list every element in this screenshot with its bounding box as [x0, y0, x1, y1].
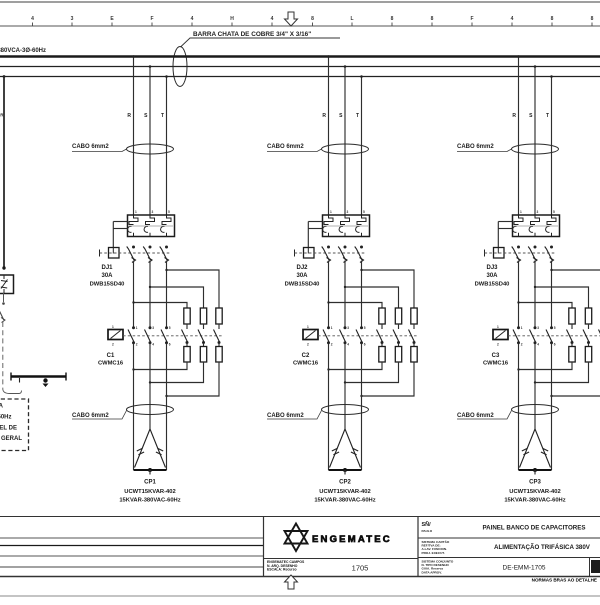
wire rejoin T [167, 362, 220, 396]
wire branch T to resistor [362, 270, 415, 308]
wire rejoin T [552, 362, 600, 396]
wire rejoin S [535, 362, 589, 383]
svg-text:PROJ. EXECUT.: PROJ. EXECUT. [422, 551, 445, 555]
contactor C1 coil [108, 330, 123, 340]
svg-text:1: 1 [331, 326, 333, 330]
svg-text:2: 2 [497, 343, 499, 347]
capacitor CP3 bottom bar [519, 469, 552, 471]
breaker contact [132, 246, 135, 249]
wire curve into panel box [3, 389, 22, 394]
sheet cell divider [589, 558, 591, 577]
bus T [0, 76, 600, 78]
node tap R3 [517, 55, 520, 58]
breaker DJ1 release box [109, 248, 120, 259]
breaker DJ1 trip block [128, 215, 175, 237]
svg-text:PAULO: PAULO [422, 529, 433, 533]
title block divider left section [264, 558, 419, 560]
svg-text:H: H [230, 16, 234, 22]
breaker contact [165, 246, 168, 249]
wire S3 mid [534, 261, 536, 328]
wire branch S to resistor [345, 287, 399, 308]
revision table line 1 [0, 537, 264, 539]
contactor aux contact [182, 330, 188, 343]
linkage tick [484, 250, 486, 257]
breaker contact [344, 246, 347, 249]
svg-text:3Ø-60Hz: 3Ø-60Hz [0, 415, 12, 421]
cable ellipse upper group 2 [322, 144, 369, 154]
svg-text:1: 1 [330, 210, 332, 214]
svg-text:R: R [322, 113, 326, 119]
svg-text:R: R [512, 113, 516, 119]
wire trip drop [497, 222, 499, 248]
cell tiny text row2 [422, 539, 450, 555]
capacitor CP2 bottom bar [329, 469, 362, 471]
contactor C3 coil [493, 330, 508, 340]
fuse F left feeder [0, 275, 14, 294]
cable ellipse lower group 1 [127, 405, 174, 415]
wire S2 mid [344, 261, 346, 328]
svg-text:CABO 6mm2: CABO 6mm2 [267, 144, 304, 150]
svg-text:5: 5 [168, 210, 170, 214]
svg-text:DWB15SD40: DWB15SD40 [285, 282, 320, 288]
svg-text:DWB15SD40: DWB15SD40 [90, 282, 125, 288]
wire phase T group 2 [361, 77, 363, 216]
capacitor CP3 delta [520, 429, 551, 468]
svg-text:4: 4 [191, 16, 194, 22]
revision table line 3 [0, 555, 264, 557]
resistor lower group 2 [395, 347, 401, 363]
svg-text:3: 3 [152, 326, 154, 330]
svg-text:F: F [470, 16, 473, 22]
linkage dashed C2 [318, 335, 418, 337]
wire trip stub lower [308, 228, 322, 230]
wire rejoin R [134, 362, 188, 370]
frame line above title block [0, 516, 600, 518]
svg-text:CP2: CP2 [339, 480, 351, 486]
capacitor CP1 bottom bar [134, 469, 167, 471]
wire rejoin S [150, 362, 204, 383]
svg-text:ESCALA: Recurso: ESCALA: Recurso [267, 568, 297, 572]
terminal bar [11, 375, 66, 378]
wire rejoin R [329, 362, 383, 370]
contactor main contact 3 [550, 326, 553, 329]
right section row divider 1 [418, 537, 600, 539]
title block left border [263, 517, 265, 577]
svg-text:3: 3 [71, 16, 74, 22]
svg-text:CABO 6mm2: CABO 6mm2 [457, 413, 494, 419]
cell tiny text row3 [422, 560, 454, 575]
wire R2 lower [328, 344, 330, 471]
contactor aux contact [214, 330, 220, 343]
resistor lower group 1 [184, 347, 190, 363]
svg-text:DATA APROV.: DATA APROV. [422, 570, 443, 574]
svg-text:2: 2 [307, 343, 309, 347]
svg-text:DE-EMM-1705: DE-EMM-1705 [503, 565, 546, 572]
wire phase S group 1 [149, 67, 151, 216]
resistor upper 2 group 1 [200, 308, 206, 324]
breaker pole element [162, 215, 171, 225]
svg-text:1: 1 [135, 210, 137, 214]
contactor C2 coil [303, 330, 318, 340]
svg-text:UCWT15KVAR-402: UCWT15KVAR-402 [319, 489, 370, 495]
node [2, 302, 5, 305]
svg-text:6: 6 [364, 343, 366, 347]
wire phase R group 3 [518, 56, 520, 215]
svg-text:3: 3 [347, 326, 349, 330]
resistor lower group 1 [216, 347, 222, 363]
wire rejoin S [345, 362, 399, 383]
node [2, 266, 5, 269]
svg-text:2: 2 [136, 343, 138, 347]
wire branch S to resistor [150, 287, 204, 308]
svg-text:COMANDO GERAL: COMANDO GERAL [0, 436, 22, 442]
ruler top line [0, 1, 600, 3]
wire R1 lower [133, 344, 135, 471]
wire phase T group 1 [166, 77, 168, 216]
svg-text:30A: 30A [101, 273, 113, 279]
contactor aux contact [583, 330, 589, 343]
resistor lower group 1 [200, 347, 206, 363]
fold mark arrow down [285, 12, 298, 26]
svg-text:15KVAR-380VAC-60Hz: 15KVAR-380VAC-60Hz [504, 498, 565, 504]
linkage dashed C3 [508, 335, 600, 337]
breaker DJ2 trip block [323, 215, 370, 237]
contactor aux contact [377, 330, 383, 343]
capacitor CP1 delta [135, 429, 166, 468]
contactor main contact 1 [132, 326, 135, 329]
svg-text:T: T [546, 113, 549, 119]
svg-text:1: 1 [112, 325, 114, 329]
svg-text:1: 1 [307, 325, 309, 329]
breaker DJ3 release box [494, 248, 505, 259]
svg-text:6: 6 [169, 343, 171, 347]
linkage tick [99, 250, 101, 257]
svg-text:DO PAINEL DE: DO PAINEL DE [0, 426, 17, 432]
linkage dashed DJ3 [485, 252, 556, 254]
svg-text:ENGEMATEC: ENGEMATEC [312, 534, 392, 545]
resistor lower group 2 [411, 347, 417, 363]
svg-text:1: 1 [521, 326, 523, 330]
revision table line 2 [0, 545, 264, 547]
contactor aux contact [599, 330, 600, 343]
wire trip drop [307, 222, 309, 248]
logo hexagram star [285, 524, 308, 552]
svg-text:4: 4 [511, 16, 514, 22]
wire trip stub lower [113, 228, 127, 230]
svg-text:8: 8 [591, 16, 594, 22]
source panel dashed box [0, 399, 29, 451]
wire phase R group 2 [328, 56, 330, 215]
breaker internal linkage line [129, 225, 173, 227]
wire R2 mid [328, 261, 330, 328]
linkage dashed C1 [123, 335, 223, 337]
svg-text:ALIMENTAÇÃO TRIFÁSICA 380V: ALIMENTAÇÃO TRIFÁSICA 380V [494, 544, 591, 551]
svg-text:15KVAR-380VAC-60Hz: 15KVAR-380VAC-60Hz [119, 498, 180, 504]
wire dashed drop [2, 322, 4, 389]
wire S1 lower [149, 344, 151, 430]
wire branch T to resistor [167, 270, 220, 308]
svg-text:DJ3: DJ3 [486, 265, 498, 271]
svg-text:CWMC16: CWMC16 [98, 361, 124, 367]
breaker pole element [146, 215, 155, 225]
contactor main contact 2 [149, 326, 152, 329]
svg-text:CABO 6mm2: CABO 6mm2 [457, 144, 494, 150]
node tap R2 [327, 55, 330, 58]
bus R [0, 55, 600, 58]
wire rejoin T [362, 362, 415, 396]
node tap R1 [132, 55, 135, 58]
contactor main contact 2 [534, 326, 537, 329]
breaker pole element [357, 215, 366, 225]
linkage dashed DJ2 [295, 252, 366, 254]
svg-text:CWMC16: CWMC16 [293, 361, 319, 367]
svg-text:30A: 30A [486, 273, 498, 279]
wire T1 lower [166, 344, 168, 471]
cable ellipse lower group 3 [512, 405, 559, 415]
svg-text:1705: 1705 [352, 564, 369, 573]
svg-text:4: 4 [152, 343, 154, 347]
breaker pole element [129, 215, 138, 225]
svg-text:SÑ/: SÑ/ [422, 521, 432, 528]
contactor main contact 3 [165, 326, 168, 329]
contactor aux contact [393, 330, 399, 343]
svg-text:C2: C2 [302, 353, 310, 359]
svg-text:2: 2 [521, 343, 523, 347]
wire T2 lower [361, 344, 363, 471]
wire T1 mid [166, 261, 168, 328]
svg-text:4: 4 [537, 343, 539, 347]
svg-text:CWMC16: CWMC16 [483, 361, 509, 367]
breaker contact [550, 246, 553, 249]
resistor lower group 3 [569, 347, 575, 363]
breaker pole element [324, 215, 333, 225]
bottom faint edge line [0, 595, 600, 597]
wire trip drop [112, 222, 114, 248]
svg-text:PAINEL BANCO DE CAPACITORES: PAINEL BANCO DE CAPACITORES [482, 525, 585, 532]
node tap T3 [550, 75, 553, 78]
svg-text:CABO 6mm2: CABO 6mm2 [72, 413, 109, 419]
node tap T1 [165, 75, 168, 78]
wire below fuse [3, 293, 5, 302]
right section row divider 2 [418, 557, 600, 559]
svg-text:4: 4 [347, 343, 349, 347]
cable ellipse lower group 2 [322, 405, 369, 415]
resistor upper 2 group 3 [585, 308, 591, 324]
breaker DJ2 release box [304, 248, 315, 259]
breaker DJ3 trip block [513, 215, 560, 237]
wire T3 mid [551, 261, 553, 328]
contactor aux contact [198, 330, 204, 343]
svg-text:8: 8 [551, 16, 554, 22]
wire R3 lower [518, 344, 520, 471]
svg-text:4: 4 [31, 16, 34, 22]
svg-text:5: 5 [554, 326, 556, 330]
wire T3 lower [551, 344, 553, 471]
ruler bottom line [0, 25, 600, 27]
fold mark arrow up [285, 575, 298, 589]
wire branch R to resistor [519, 303, 573, 309]
svg-text:CP1: CP1 [144, 480, 156, 486]
svg-text:2: 2 [112, 343, 114, 347]
svg-text:5: 5 [553, 210, 555, 214]
wire phase S group 3 [534, 67, 536, 216]
cell tiny text row1 [422, 521, 433, 533]
svg-text:8: 8 [391, 16, 394, 22]
breaker contact [534, 246, 537, 249]
breaker contact [327, 246, 330, 249]
wire S2 lower [344, 344, 346, 430]
breaker internal linkage line [514, 225, 558, 227]
svg-text:UCWT15KVAR-402: UCWT15KVAR-402 [509, 489, 560, 495]
svg-text:6: 6 [554, 343, 556, 347]
breaker internal linkage line [324, 225, 368, 227]
contactor main contact 3 [360, 326, 363, 329]
svg-text:1: 1 [520, 210, 522, 214]
svg-text:BARRA CHATA DE COBRE 3/4" X 3/: BARRA CHATA DE COBRE 3/4" X 3/16" [193, 31, 311, 38]
svg-text:NORMAS BRAS AO DETALHE: NORMAS BRAS AO DETALHE [532, 578, 597, 583]
capacitor CP2 delta [330, 429, 361, 468]
sheet cell blob [591, 560, 600, 573]
cable ellipse upper group 1 [127, 144, 174, 154]
svg-text:1: 1 [136, 326, 138, 330]
resistor lower group 2 [379, 347, 385, 363]
bus S [0, 66, 600, 68]
resistor upper 2 group 2 [395, 308, 401, 324]
wire branch T to resistor [552, 270, 600, 308]
svg-text:3: 3 [347, 210, 349, 214]
svg-text:UCWT15KVAR-402: UCWT15KVAR-402 [124, 489, 175, 495]
node tap S3 [534, 65, 537, 68]
wire trip stub upper [113, 221, 127, 223]
svg-text:DJ2: DJ2 [296, 265, 308, 271]
breaker contact [360, 246, 363, 249]
ground tap dot [43, 378, 47, 382]
wire branch R to resistor [134, 303, 188, 309]
contactor main contact 2 [344, 326, 347, 329]
svg-text:5: 5 [364, 326, 366, 330]
svg-text:8: 8 [311, 16, 314, 22]
svg-text:T: T [161, 113, 164, 119]
svg-text:15KVAR-380VAC-60Hz: 15KVAR-380VAC-60Hz [314, 498, 375, 504]
wire R3 mid [518, 261, 520, 328]
wire S3 lower [534, 344, 536, 430]
wire rejoin R [519, 362, 573, 370]
page bottom border [0, 576, 600, 578]
contactor aux contact [409, 330, 415, 343]
svg-text:30A: 30A [296, 273, 308, 279]
breaker pole element [531, 215, 540, 225]
svg-text:380VCA-3Ø-60Hz: 380VCA-3Ø-60Hz [0, 48, 46, 54]
contactor main contact 1 [517, 326, 520, 329]
linkage tick [294, 250, 296, 257]
svg-text:L: L [350, 16, 353, 22]
svg-text:CP3: CP3 [529, 480, 541, 486]
svg-text:C1: C1 [107, 353, 115, 359]
resistor upper 3 group 1 [216, 308, 222, 324]
svg-text:2: 2 [331, 343, 333, 347]
breaker contact [149, 246, 152, 249]
wire phase S group 2 [344, 67, 346, 216]
svg-text:DJ1: DJ1 [101, 265, 113, 271]
svg-text:4: 4 [271, 16, 274, 22]
svg-text:3: 3 [537, 326, 539, 330]
svg-text:C3: C3 [492, 353, 500, 359]
resistor upper 1 group 1 [184, 308, 190, 324]
revision table line 4 [0, 566, 264, 568]
svg-text:CABO 6mm2: CABO 6mm2 [267, 413, 304, 419]
resistor upper 1 group 3 [569, 308, 575, 324]
svg-text:CABO 6mm2: CABO 6mm2 [72, 144, 109, 150]
breaker pole element [514, 215, 523, 225]
wire left feeder [3, 77, 5, 269]
svg-text:F: F [150, 16, 153, 22]
wire branch S to resistor [535, 287, 589, 308]
svg-text:5: 5 [363, 210, 365, 214]
breaker pole element [341, 215, 350, 225]
wire trip stub lower [498, 228, 512, 230]
title block vertical logo/right [417, 517, 419, 577]
terminal stub [19, 378, 21, 383]
cable ellipse upper group 3 [512, 144, 559, 154]
svg-text:R: R [127, 113, 131, 119]
contactor main contact 1 [327, 326, 330, 329]
svg-text:1: 1 [497, 325, 499, 329]
wire phase R group 1 [133, 56, 135, 215]
svg-text:T: T [356, 113, 359, 119]
wire R1 mid [133, 261, 135, 328]
svg-text:DWB15SD40: DWB15SD40 [475, 282, 510, 288]
node left feeder tap [3, 75, 6, 78]
wire S1 mid [149, 261, 151, 328]
node tap T2 [360, 75, 363, 78]
resistor upper 3 group 2 [411, 308, 417, 324]
resistor upper 1 group 2 [379, 308, 385, 324]
wire trip stub upper [498, 221, 512, 223]
breaker pole element [547, 215, 556, 225]
title block small text block left [267, 560, 305, 572]
node tap S2 [344, 65, 347, 68]
svg-text:5: 5 [169, 326, 171, 330]
contactor aux contact [567, 330, 573, 343]
resistor lower group 3 [585, 347, 591, 363]
svg-text:3: 3 [152, 210, 154, 214]
linkage dashed DJ1 [100, 252, 171, 254]
node tap S1 [149, 65, 152, 68]
svg-text:3: 3 [537, 210, 539, 214]
breaker contact [517, 246, 520, 249]
disconnect contact left [0, 309, 4, 320]
wire branch R to resistor [329, 303, 383, 309]
wire phase T group 3 [551, 77, 553, 216]
wire trip stub upper [308, 221, 322, 223]
busbar callout ellipse [173, 47, 187, 87]
svg-text:8: 8 [431, 16, 434, 22]
wire T2 mid [361, 261, 363, 328]
